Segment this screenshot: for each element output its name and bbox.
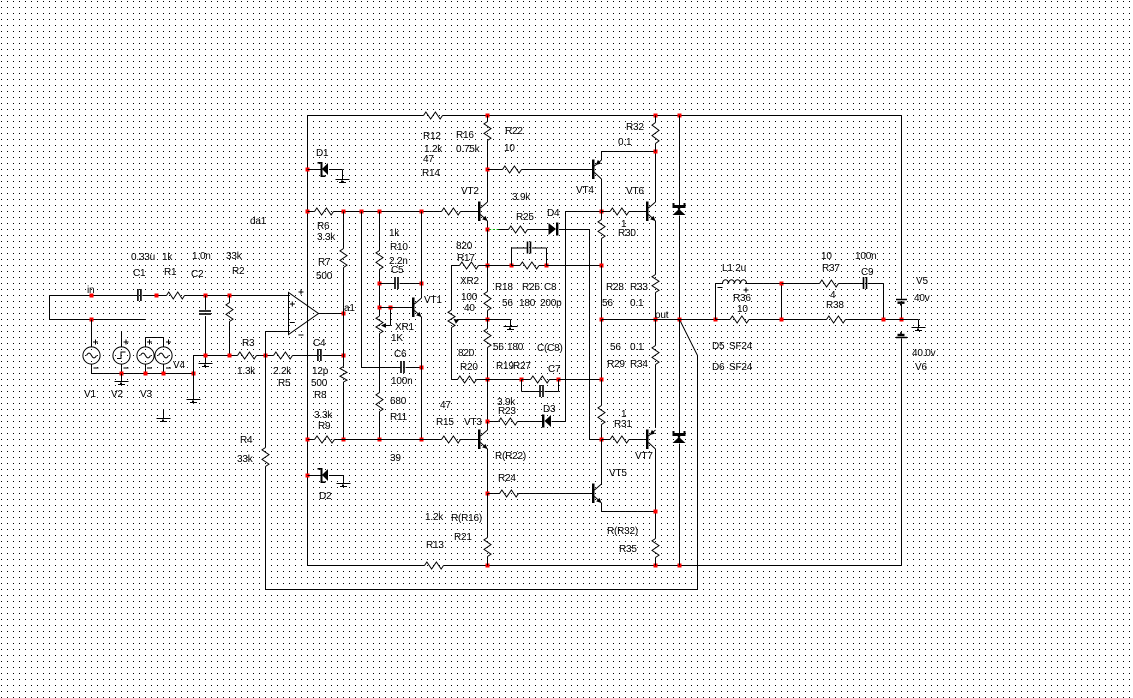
source V1 (83, 347, 100, 364)
wire C6 left lead (362, 367, 401, 369)
wire VT3 base lead (460, 439, 479, 441)
svg-text:R3: R3 (242, 338, 255, 349)
svg-text:VT4: VT4 (576, 185, 594, 196)
wire VT4 to R32 node (602, 151, 656, 153)
wire R4 to fb bottom (265, 467, 267, 590)
wire R20 right lead (477, 379, 488, 381)
wire R26 right lead (539, 265, 547, 267)
svg-text:R2: R2 (232, 266, 245, 277)
wire R18 bottom lead (487, 311, 489, 320)
junction C2 top (204, 294, 208, 298)
wire x589 to R31 node (590, 439, 602, 441)
ground at D1 (336, 179, 350, 181)
svg-text:10: 10 (821, 251, 832, 262)
wire R10 top lead (379, 212, 381, 251)
wire L1 right lead down (781, 284, 783, 320)
svg-text:L1 2u: L1 2u (722, 263, 746, 274)
wire VT6 emitter to R33 (655, 221, 657, 275)
svg-text:out: out (655, 310, 669, 321)
resistor R26 (520, 262, 539, 269)
svg-text:680: 680 (390, 396, 407, 407)
polarity minus mark (125.5,367.5) (124, 367, 129, 369)
wire C2 ground stub (205, 356, 207, 364)
resistor R13 (425, 562, 444, 569)
wire R29 bottom lead (601, 425, 603, 440)
svg-text:56: 56 (493, 342, 504, 353)
wire top border left (308, 115, 424, 117)
transistor VT7 (646, 430, 649, 450)
junction at (601,439) (600, 438, 604, 442)
capacitor C4 (317, 349, 319, 361)
svg-text:1.3k: 1.3k (237, 366, 256, 377)
wire to R29 (601, 380, 603, 406)
svg-text:820: 820 (456, 241, 473, 252)
wire R34 to VT7 emitter (655, 365, 657, 428)
wire C9 right lead (868, 283, 884, 285)
svg-text:VT6: VT6 (626, 186, 644, 197)
capacitor C6 (400, 361, 402, 373)
wire R16 bottom lead (487, 141, 489, 170)
transistor VT5 (592, 484, 595, 504)
resistor R22 (503, 166, 522, 173)
svg-text:C7: C7 (548, 364, 561, 375)
wire XR1 wiper horizontal (385, 325, 391, 327)
svg-text:0.1: 0.1 (630, 342, 644, 353)
svg-text:40: 40 (464, 303, 475, 314)
resistor R23 (499, 418, 518, 425)
wire diode rail lower (679, 320, 681, 434)
wire fb up to minus (265, 332, 267, 356)
junction at (487,265) (486, 264, 490, 268)
polarity minus mark (291.8,322) (290, 322, 295, 324)
wire D1 ground stub (342, 170, 344, 180)
wire R14 to VT2 base (461, 211, 479, 213)
wire feedback bottom (266, 589, 698, 591)
resistor R38 (827, 316, 846, 323)
junction at (307,211) (306, 210, 310, 214)
svg-text:da1: da1 (250, 216, 267, 227)
wire VT1 collector (421, 212, 423, 299)
wire x343 column upper (343, 268, 345, 367)
svg-text:56: 56 (502, 298, 513, 309)
XR1 wiper arrow (381, 323, 386, 328)
svg-text:R29: R29 (607, 359, 625, 370)
resistor R11 (376, 393, 383, 412)
resistor R6 (315, 208, 334, 215)
junction at (307,439) (306, 438, 310, 442)
wire input row to C1 (50, 295, 138, 297)
source V4 (155, 347, 172, 364)
svg-text:R17: R17 (457, 253, 475, 264)
svg-text:R31: R31 (614, 419, 632, 430)
resistor R16 (484, 122, 491, 141)
junction at (601,319) (600, 318, 604, 322)
ground at C2 (199, 363, 213, 365)
svg-text:R13: R13 (426, 540, 444, 551)
junction at (521,379) (520, 378, 524, 382)
junction at (343,211) (342, 210, 346, 214)
junction at (390,307) (389, 306, 393, 310)
svg-text:100: 100 (461, 292, 478, 303)
wire R32 bottom lead (655, 144, 657, 152)
svg-text:R20: R20 (460, 362, 478, 373)
svg-text:3.3k: 3.3k (314, 410, 333, 421)
wire x565 column (565, 212, 567, 422)
junction at (601,211) (600, 210, 604, 214)
resistor R10 (376, 251, 383, 270)
wire R36 left lead (716, 319, 731, 321)
junction at (679,115) (678, 114, 682, 118)
wire V1 stem (91, 320, 93, 348)
junction at (601,265) (600, 264, 604, 268)
wire R24 right lead (519, 493, 520, 495)
junction at (487,229) (486, 228, 490, 232)
wire XR2 to R20 (451, 328, 453, 380)
junction at (655,319) (654, 318, 658, 322)
resistor R8 (340, 367, 347, 383)
wire XR1 to R11 (379, 334, 381, 393)
wire ground stub (918, 320, 920, 328)
svg-text:R(R32): R(R32) (607, 526, 638, 537)
svg-text:D1: D1 (316, 148, 329, 159)
wire C9 down to out (883, 284, 885, 320)
svg-text:56: 56 (602, 298, 613, 309)
wire R27 right lead (550, 379, 559, 381)
svg-text:R12: R12 (423, 131, 441, 142)
svg-text:R33: R33 (630, 282, 648, 293)
battery V6 (896, 337, 907, 339)
junction at (193,373) (192, 372, 196, 376)
wire R35 bottom lead (655, 558, 657, 566)
wire VT1 base (380, 307, 413, 309)
wire R17 right lead (479, 265, 488, 267)
junction at (487,115) (486, 114, 490, 118)
svg-text:R14: R14 (422, 168, 440, 179)
svg-text:1.0n: 1.0n (192, 251, 211, 262)
wire VT5 collector join (601, 484, 603, 485)
junction at (145,373) (144, 372, 148, 376)
wire R28 bottom lead (601, 239, 603, 266)
wire to op-amp minus (266, 331, 289, 333)
wire R11 bottom lead (379, 412, 381, 440)
junction C1-R1 net (155, 294, 159, 298)
wire C8 left lead (512, 247, 527, 249)
wire D4 cathode (560, 229, 590, 231)
svg-text:R9: R9 (318, 421, 331, 432)
wire R19 top lead (487, 320, 489, 329)
svg-text:40.0v: 40.0v (912, 348, 936, 359)
wire VT5 emitter to R35 node (602, 511, 656, 513)
wire V5 to out (901, 305, 903, 319)
svg-text:R5: R5 (278, 378, 291, 389)
svg-text:33k: 33k (226, 251, 243, 262)
diode D5 (673, 205, 686, 208)
svg-text:D6: D6 (712, 362, 725, 373)
wire R26 left lead (512, 265, 521, 267)
wire VT6 collector (655, 152, 657, 203)
wire C8 right lead (532, 247, 546, 249)
wire op-amp output a1 (319, 313, 344, 315)
junction at (421,211) (420, 210, 424, 214)
wire V2 bottom (121, 364, 123, 374)
svg-text:R18: R18 (495, 282, 513, 293)
wire R32 top lead (655, 116, 657, 123)
junction R2 top (228, 294, 232, 298)
svg-text:C(C8): C(C8) (537, 343, 563, 354)
resistor R32 (652, 123, 659, 144)
svg-text:R7: R7 (318, 257, 331, 268)
transistor VT2 (478, 202, 481, 222)
junction at (901,319) (900, 318, 904, 322)
wire R10 to base node (379, 270, 381, 308)
junction at (205,355) (204, 354, 208, 358)
svg-text:XR2: XR2 (460, 276, 479, 287)
resistor R5 (274, 352, 293, 359)
wire sources bus (92, 373, 194, 375)
wire x589 column (589, 230, 591, 440)
capacitor C8 (527, 242, 529, 254)
junction at (229,355) (228, 354, 232, 358)
capacitor C5 (394, 277, 396, 289)
wire to D1 (308, 169, 322, 171)
wire C1 to R1 (142, 295, 166, 297)
svg-text:R22: R22 (505, 126, 523, 137)
wire VT2 emitter to R26 row (487, 230, 489, 266)
wire XR1 wiper vertical (390, 308, 392, 326)
svg-text:39: 39 (390, 453, 401, 464)
svg-text:R36: R36 (733, 293, 751, 304)
svg-text:R27: R27 (513, 361, 531, 372)
wire D2 ground stub (343, 476, 345, 484)
junction at (655,565) (654, 564, 658, 568)
wire VT4 emitter up (601, 152, 603, 161)
wire to D2 (308, 475, 322, 477)
diode D4 (549, 223, 557, 235)
polarity minus mark (149,367.5) (147, 367, 152, 369)
wire R28 top lead (601, 212, 603, 220)
resistor R25 (509, 226, 528, 233)
wire R3-R5 (257, 355, 274, 357)
svg-text:R28: R28 (606, 282, 624, 293)
transistor VT1 (412, 298, 415, 318)
svg-text:0.33u: 0.33u (131, 252, 155, 263)
svg-text:R6: R6 (317, 221, 330, 232)
svg-text:10: 10 (737, 304, 748, 315)
wire row355 left (194, 355, 238, 357)
wire input loop left edge (49, 296, 51, 320)
polarity minus mark (719.5,287) (718, 287, 723, 289)
junction at (655,115) (654, 114, 658, 118)
wire to ground stub (488, 319, 511, 321)
wire R25 to D4 (528, 229, 550, 231)
wire R31 to VT7 base (629, 439, 647, 441)
wire to R27 (488, 379, 522, 381)
svg-text:180: 180 (519, 298, 536, 309)
wire floating ground stub (163, 410, 165, 419)
resistor R4 (262, 448, 269, 467)
svg-text:VT3: VT3 (464, 417, 482, 428)
wire diode rail middle (679, 216, 681, 320)
resistor R36 (730, 316, 749, 323)
junction C5 left (378, 282, 382, 286)
wire bottom border right (444, 565, 902, 567)
wire row439 middle (335, 439, 442, 441)
wire R21 bottom lead (487, 557, 489, 566)
wire input loop bottom (50, 319, 146, 321)
wire green to R25 (499, 229, 509, 231)
zener D1 (321, 162, 323, 177)
svg-text:C1: C1 (133, 268, 146, 279)
wire R5 to C4 (293, 355, 318, 357)
wire R22 to VT4 base (522, 169, 593, 171)
resistor R17 (460, 262, 479, 269)
junction at (546,265) (545, 264, 549, 268)
wire C8 loop left (511, 248, 513, 266)
wire XR2 wiper (458, 319, 488, 321)
wire R26 row right (547, 265, 602, 267)
svg-text:R(R22): R(R22) (495, 451, 526, 462)
junction at (379,307) (378, 306, 382, 310)
wire feedback diagonal to out (680, 320, 698, 356)
svg-text:R23: R23 (498, 406, 516, 417)
ground system (912, 327, 926, 329)
resistor R27 (531, 376, 550, 383)
wire VT2 collector (487, 170, 489, 203)
wire V3 stem (145, 338, 147, 348)
wire C8 loop right (546, 248, 548, 266)
potentiometer XR1 (376, 316, 383, 334)
diode D3 (542, 415, 544, 428)
junction at (487,169) (486, 168, 490, 172)
junction at (558,379) (557, 378, 561, 382)
wire R37 left lead (782, 283, 820, 285)
junction at (679,565) (678, 564, 682, 568)
wire R31 left lead (602, 439, 611, 441)
wire right edge lower (901, 339, 903, 566)
svg-text:C4: C4 (313, 338, 326, 349)
wire R1 to op-amp + (185, 295, 289, 297)
svg-text:R38: R38 (826, 300, 844, 311)
wire R23 to D3 (518, 421, 543, 423)
svg-text:40v: 40v (914, 293, 930, 304)
resistor R31 (610, 436, 629, 443)
polarity minus mark (300.5,334.5) (299, 334, 304, 336)
svg-text:VT1: VT1 (424, 295, 442, 306)
svg-text:V3: V3 (140, 389, 152, 400)
wire diode rail upper (679, 116, 681, 206)
junction C5 right (420, 282, 424, 286)
source V3 (137, 347, 154, 364)
svg-text:D4: D4 (547, 208, 560, 219)
wire VT3 collector (487, 422, 489, 431)
wire bus up to row (193, 356, 195, 374)
junction at (379,439) (378, 438, 382, 442)
wire C7 loop left (521, 380, 523, 392)
svg-text:R11: R11 (390, 412, 408, 423)
wire VT2 emitter (487, 221, 489, 230)
polarity plus mark (291.8,303.5) (290, 302, 295, 307)
svg-text:47: 47 (440, 400, 451, 411)
svg-text:R15: R15 (436, 417, 454, 428)
wire C5 left lead (380, 283, 395, 285)
svg-text:1k: 1k (389, 228, 400, 239)
wire green segment (489, 229, 499, 231)
wire V1 bottom (91, 364, 93, 374)
polarity minus mark (95.5,367.5) (94, 367, 99, 369)
junction at (343,355) (342, 354, 346, 358)
wire R16 top lead (487, 116, 489, 122)
resistor R37 (820, 280, 839, 287)
svg-text:100n: 100n (391, 376, 412, 387)
svg-text:3.3k: 3.3k (317, 232, 336, 243)
svg-text:500: 500 (316, 271, 333, 282)
svg-text:C2: C2 (191, 269, 204, 280)
wire D3 to x565 (552, 421, 566, 423)
junction at (511,265) (510, 264, 514, 268)
wire V2 ground stub (121, 374, 123, 382)
wire to VT5 collector (601, 440, 603, 486)
wire R23 left lead (488, 421, 499, 423)
svg-text:56: 56 (610, 342, 621, 353)
svg-text:500: 500 (311, 378, 328, 389)
junction at (487,379) (486, 378, 490, 382)
polarity plus mark (125.5,341.5) (124, 340, 129, 345)
svg-text:C9: C9 (861, 267, 874, 278)
wire D1 anode (329, 169, 343, 171)
wire to R35 (655, 512, 657, 539)
wire R18 top lead (487, 266, 489, 292)
wire R36 to R38 (749, 319, 827, 321)
svg-text:1K: 1K (391, 333, 403, 344)
wire row211 middle (334, 211, 442, 213)
svg-text:R37: R37 (822, 263, 840, 274)
capacitor C9 (863, 277, 865, 289)
wire R20 left lead (452, 379, 458, 381)
junction at (487,565) (486, 564, 490, 568)
svg-text:R21: R21 (454, 532, 472, 543)
junction at (655,151) (654, 150, 658, 154)
junction at (163,373) (162, 372, 166, 376)
junction at (421,439) (420, 438, 424, 442)
wire R38 to V-node (846, 319, 902, 321)
wire C6 right lead (406, 367, 422, 369)
wire D2 anode (329, 475, 344, 477)
resistor R3 (238, 352, 257, 359)
wire x601 out to R27 row (601, 320, 603, 380)
potentiometer XR2 (448, 310, 455, 328)
resistor R20 (458, 376, 477, 383)
svg-text:R10: R10 (390, 242, 408, 253)
transistor VT6 (646, 202, 649, 222)
svg-text:0.1: 0.1 (618, 137, 632, 148)
resistor R30 (610, 208, 629, 215)
polarity plus mark (745.5,289.5) (744, 288, 749, 293)
junction at (379,211) (378, 210, 382, 214)
wire to XR1 (379, 308, 381, 317)
junction at (487,319) (486, 318, 490, 322)
svg-text:200p: 200p (540, 298, 562, 309)
zener D2 (321, 468, 323, 483)
op-amp da1 (289, 293, 319, 335)
wire R27 left lead (522, 379, 531, 381)
resistor R12 (424, 112, 443, 119)
junction VT7 collector / VT5 emitter (654, 510, 658, 514)
polarity plus mark (95,341.5) (93, 340, 98, 345)
svg-text:V1: V1 (84, 389, 96, 400)
wire R33 bottom lead (655, 293, 657, 320)
wire VT5 emitter down (601, 503, 603, 512)
svg-text:10: 10 (504, 143, 515, 154)
